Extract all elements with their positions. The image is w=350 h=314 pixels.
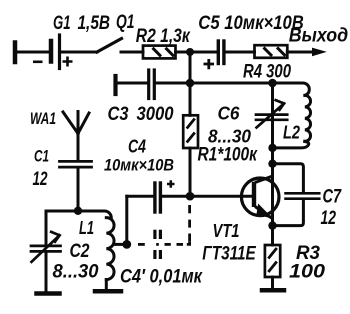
svg-text:10мк×10В: 10мк×10В bbox=[104, 156, 174, 175]
svg-text:C4: C4 bbox=[128, 137, 146, 157]
svg-text:Q1: Q1 bbox=[116, 11, 135, 33]
svg-text:C2: C2 bbox=[70, 240, 90, 262]
svg-text:C6: C6 bbox=[218, 104, 241, 124]
svg-text:12: 12 bbox=[33, 168, 48, 190]
svg-text:C4′ 0,01мк: C4′ 0,01мк bbox=[120, 267, 203, 288]
svg-text:WA1: WA1 bbox=[30, 109, 56, 128]
svg-text:R4 300: R4 300 bbox=[243, 61, 291, 83]
svg-text:12: 12 bbox=[321, 207, 337, 229]
svg-text:3000: 3000 bbox=[137, 103, 174, 125]
svg-text:Выход: Выход bbox=[289, 25, 349, 47]
svg-text:C1: C1 bbox=[34, 147, 49, 166]
svg-text:C3: C3 bbox=[108, 103, 129, 125]
svg-text:1,5В: 1,5В bbox=[78, 12, 111, 34]
svg-text:ГТ311Е: ГТ311Е bbox=[202, 244, 257, 265]
svg-text:R1*100к: R1*100к bbox=[198, 145, 259, 166]
svg-text:L1: L1 bbox=[79, 217, 94, 238]
svg-text:R2 1,3к: R2 1,3к bbox=[136, 25, 191, 47]
svg-text:100: 100 bbox=[289, 261, 325, 283]
svg-text:VT1: VT1 bbox=[213, 220, 240, 241]
svg-text:G1: G1 bbox=[53, 12, 71, 34]
svg-text:8...30: 8...30 bbox=[208, 126, 252, 147]
svg-text:8...30: 8...30 bbox=[53, 261, 99, 283]
svg-text:C7: C7 bbox=[323, 186, 342, 208]
svg-text:L2: L2 bbox=[283, 123, 300, 143]
